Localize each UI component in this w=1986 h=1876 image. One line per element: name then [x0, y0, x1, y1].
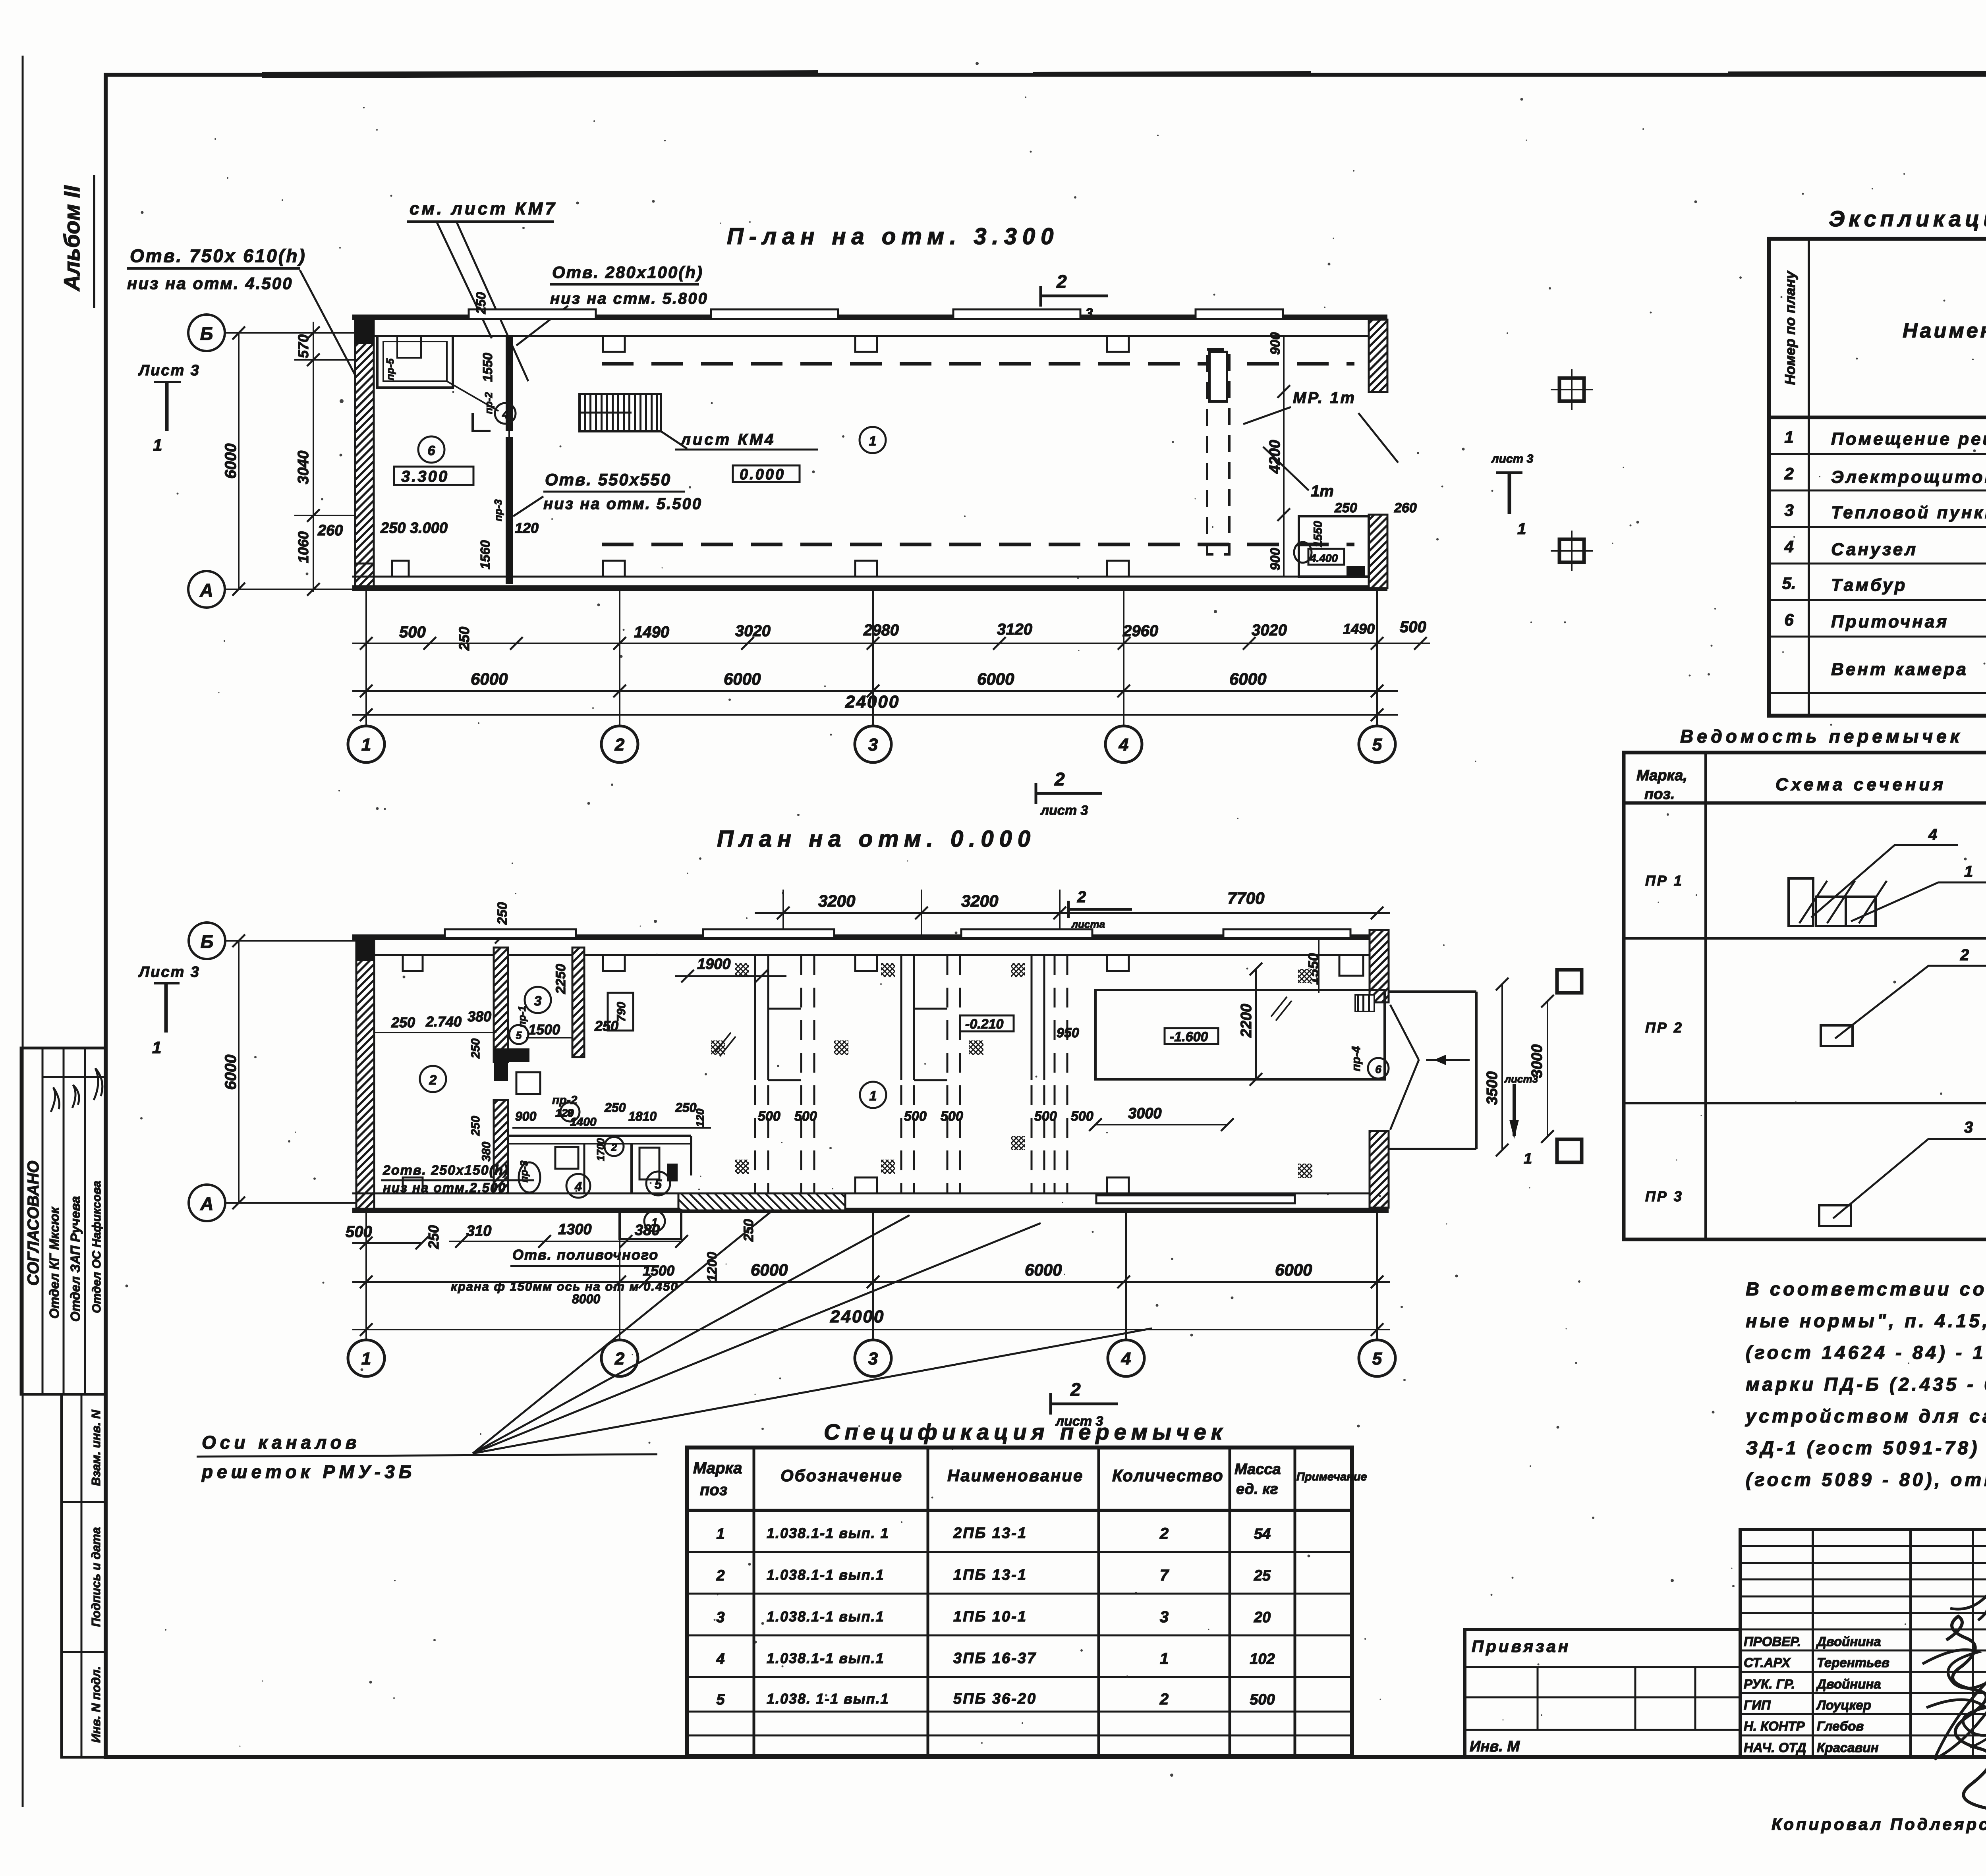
svg-text:2: 2 [429, 1073, 437, 1088]
svg-text:1550: 1550 [480, 353, 495, 382]
svg-text:2: 2 [1784, 464, 1793, 483]
svg-text:низ на отм. 5.500: низ на отм. 5.500 [543, 495, 702, 513]
svg-text:пр-2: пр-2 [552, 1094, 578, 1107]
svg-text:1.038.1-1 вып.1: 1.038.1-1 вып.1 [767, 1608, 885, 1625]
svg-text:120: 120 [515, 520, 539, 536]
svg-text:3: 3 [868, 1349, 878, 1368]
svg-text:Лоуцкер: Лоуцкер [1816, 1698, 1871, 1712]
svg-text:2: 2 [1159, 1525, 1169, 1542]
svg-text:1.038. 1-1 вып.1: 1.038. 1-1 вып.1 [767, 1691, 889, 1707]
svg-text:3: 3 [1160, 1608, 1169, 1626]
svg-text:П-лан на отм. 3.300: П-лан на отм. 3.300 [727, 224, 1059, 249]
svg-text:4: 4 [502, 408, 508, 421]
svg-text:1500: 1500 [643, 1262, 674, 1279]
svg-text:0.000: 0.000 [740, 466, 785, 483]
svg-text:1: 1 [1784, 428, 1793, 446]
svg-text:500: 500 [1400, 618, 1426, 636]
svg-text:3500: 3500 [1484, 1071, 1501, 1105]
svg-text:900: 900 [1268, 548, 1283, 571]
svg-text:РУК. ГР.: РУК. ГР. [1744, 1677, 1795, 1691]
svg-text:6: 6 [1784, 610, 1794, 629]
svg-text:ед. кг: ед. кг [1236, 1481, 1278, 1498]
svg-text:8000: 8000 [572, 1292, 600, 1306]
svg-text:Отдел ОС Нафиксова: Отдел ОС Нафиксова [90, 1181, 103, 1313]
svg-text:1ПБ 13-1: 1ПБ 13-1 [953, 1567, 1027, 1583]
svg-text:Количество: Количество [1112, 1466, 1224, 1485]
svg-text:-1.600: -1.600 [1170, 1029, 1208, 1044]
svg-text:пр-3: пр-3 [518, 1160, 530, 1182]
svg-text:4: 4 [1121, 1349, 1131, 1368]
svg-text:5: 5 [1372, 735, 1382, 755]
svg-text:900: 900 [1268, 332, 1283, 355]
svg-text:5.: 5. [1782, 574, 1796, 593]
svg-text:Оси каналов: Оси каналов [202, 1432, 361, 1453]
svg-text:1400: 1400 [570, 1116, 597, 1129]
svg-text:2: 2 [1056, 271, 1067, 292]
svg-text:250: 250 [495, 902, 510, 925]
svg-text:Копировал Подлеярская: Копировал Подлеярская [1772, 1815, 1986, 1834]
svg-text:лист КМ4: лист КМ4 [680, 431, 775, 448]
svg-text:1: 1 [1160, 1650, 1169, 1668]
svg-text:250: 250 [456, 627, 472, 651]
svg-text:2отв. 250х150(h): 2отв. 250х150(h) [383, 1163, 509, 1178]
svg-text:1: 1 [869, 1089, 877, 1104]
svg-text:Красавин: Красавин [1817, 1740, 1879, 1755]
svg-text:НАЧ. ОТД: НАЧ. ОТД [1744, 1740, 1806, 1755]
svg-text:(гост 14624 - 84) - 1шт; мар: (гост 14624 - 84) - 1шт; марки ДО 24-10 … [1746, 1342, 1986, 1363]
svg-text:1.038.1-1 вып. 1: 1.038.1-1 вып. 1 [767, 1525, 889, 1541]
svg-text:Наименование: Наименование [947, 1466, 1084, 1485]
svg-text:Номер по плану: Номер по плану [1782, 270, 1798, 385]
svg-text:5: 5 [655, 1177, 662, 1191]
svg-text:Н. КОНТР: Н. КОНТР [1744, 1719, 1805, 1733]
svg-text:Отв. поливочного: Отв. поливочного [512, 1247, 659, 1263]
svg-text:500: 500 [904, 1109, 927, 1124]
svg-text:24000: 24000 [830, 1307, 885, 1326]
svg-text:2ПБ 13-1: 2ПБ 13-1 [953, 1525, 1027, 1542]
svg-text:6: 6 [1375, 1063, 1381, 1075]
svg-text:2960: 2960 [1122, 622, 1158, 640]
svg-text:3200: 3200 [961, 892, 998, 910]
svg-text:пр-3: пр-3 [492, 499, 504, 521]
svg-text:250 3.000: 250 3.000 [380, 520, 448, 537]
svg-text:1490: 1490 [1343, 621, 1375, 637]
svg-text:низ на стм. 5.800: низ на стм. 5.800 [550, 290, 708, 307]
svg-text:марки ПД-Б (2.435 - 6 вып.: марки ПД-Б (2.435 - 6 вып.1) - 1шт обору… [1746, 1374, 1986, 1395]
svg-text:2.740: 2.740 [425, 1013, 462, 1030]
svg-text:ГИП: ГИП [1744, 1698, 1771, 1712]
svg-text:1550: 1550 [1312, 521, 1325, 547]
svg-text:5ПБ 36-20: 5ПБ 36-20 [953, 1691, 1037, 1707]
svg-text:1т: 1т [1311, 483, 1334, 500]
svg-text:пр-1: пр-1 [516, 1006, 528, 1028]
svg-text:Б: Б [201, 931, 214, 952]
svg-text:1ПБ 10-1: 1ПБ 10-1 [953, 1608, 1027, 1625]
svg-text:250: 250 [604, 1100, 626, 1115]
svg-text:Глебов: Глебов [1817, 1719, 1864, 1733]
svg-text:6000: 6000 [1025, 1260, 1062, 1279]
svg-text:2200: 2200 [1238, 1004, 1255, 1038]
svg-text:пр-5: пр-5 [384, 358, 396, 380]
svg-text:пр-2: пр-2 [483, 392, 495, 414]
svg-text:ные нормы", п. 4.15, двери: ные нормы", п. 4.15, двери марки ДНГ 24-… [1746, 1310, 1986, 1331]
svg-text:120: 120 [694, 1108, 706, 1127]
svg-text:1300: 1300 [558, 1221, 592, 1238]
svg-text:1: 1 [361, 1349, 371, 1368]
svg-text:6: 6 [428, 443, 436, 458]
svg-text:3000: 3000 [1128, 1105, 1162, 1122]
svg-text:380: 380 [480, 1142, 493, 1162]
svg-text:1560: 1560 [478, 540, 493, 569]
svg-text:Тепловой пункт: Тепловой пункт [1831, 503, 1986, 522]
svg-text:3ПБ 16-37: 3ПБ 16-37 [953, 1650, 1037, 1667]
svg-text:Экспликация помещений: Экспликация помещений [1829, 206, 1986, 231]
svg-text:4: 4 [716, 1651, 724, 1668]
svg-text:4: 4 [1784, 537, 1793, 556]
svg-text:Электрощитовая: Электрощитовая [1831, 467, 1986, 487]
svg-text:лист3: лист3 [1504, 1073, 1538, 1085]
svg-text:1: 1 [869, 434, 877, 449]
svg-text:2250: 2250 [553, 964, 568, 994]
svg-text:ПРОВЕР.: ПРОВЕР. [1744, 1634, 1801, 1649]
svg-text:1500: 1500 [528, 1021, 560, 1038]
svg-text:380: 380 [468, 1008, 491, 1025]
svg-text:СОГЛАСОВАНО: СОГЛАСОВАНО [25, 1161, 42, 1286]
svg-text:500: 500 [346, 1223, 372, 1241]
svg-text:1.038.1-1 вып.1: 1.038.1-1 вып.1 [767, 1567, 885, 1583]
svg-text:СТ.АРХ: СТ.АРХ [1744, 1655, 1791, 1670]
svg-text:3: 3 [534, 994, 542, 1009]
svg-text:решеток РМУ-3Б: решеток РМУ-3Б [201, 1461, 415, 1482]
svg-text:4: 4 [574, 1179, 582, 1194]
svg-text:Схема сечения: Схема сечения [1775, 775, 1946, 794]
svg-text:1900: 1900 [697, 956, 731, 973]
svg-text:4200: 4200 [1267, 440, 1283, 474]
svg-text:5: 5 [716, 1691, 725, 1708]
svg-text:Санузел: Санузел [1831, 540, 1918, 559]
svg-text:2: 2 [1070, 1379, 1081, 1400]
svg-text:1: 1 [1964, 863, 1973, 880]
svg-text:Терентьев: Терентьев [1817, 1655, 1889, 1670]
svg-text:250: 250 [469, 1038, 482, 1059]
svg-text:пр-4: пр-4 [1350, 1046, 1363, 1071]
svg-text:1.038.1-1 вып.1: 1.038.1-1 вып.1 [767, 1650, 885, 1666]
svg-text:500: 500 [1034, 1109, 1057, 1124]
svg-text:4: 4 [1119, 735, 1128, 755]
svg-text:ЗД-1 (гост 5091-78) и замком: ЗД-1 (гост 5091-78) и замком ЗН1Л [1746, 1437, 1986, 1458]
svg-text:950: 950 [1057, 1025, 1079, 1040]
svg-text:1: 1 [716, 1526, 724, 1542]
svg-text:низ на отм. 4.500: низ на отм. 4.500 [127, 274, 293, 293]
svg-text:2980: 2980 [863, 621, 899, 639]
svg-text:лист 3: лист 3 [1491, 452, 1534, 465]
svg-text:3: 3 [716, 1609, 724, 1626]
svg-text:2: 2 [611, 1141, 617, 1153]
svg-text:260: 260 [1394, 500, 1417, 515]
svg-text:25: 25 [1254, 1567, 1271, 1584]
svg-text:Лист 3: Лист 3 [138, 362, 200, 379]
svg-text:2: 2 [1159, 1691, 1169, 1708]
svg-text:250: 250 [469, 1116, 482, 1136]
svg-text:Помещение решеток: Помещение решеток [1831, 429, 1986, 449]
svg-text:План на отм. 0.000: План на отм. 0.000 [717, 826, 1036, 852]
svg-text:-0.210: -0.210 [965, 1017, 1003, 1032]
svg-text:3.300: 3.300 [401, 468, 449, 485]
svg-text:Подпись и дата: Подпись и дата [89, 1527, 103, 1627]
svg-text:6000: 6000 [222, 444, 240, 479]
svg-text:3: 3 [868, 735, 878, 755]
svg-text:Масса: Масса [1234, 1461, 1281, 1478]
svg-text:3: 3 [1784, 501, 1793, 519]
svg-text:500: 500 [794, 1109, 817, 1124]
svg-text:250: 250 [473, 292, 488, 315]
svg-text:Инв. N подл.: Инв. N подл. [89, 1666, 103, 1743]
svg-text:6000: 6000 [724, 670, 761, 688]
svg-text:250: 250 [1334, 500, 1357, 515]
svg-text:54: 54 [1254, 1526, 1271, 1542]
svg-text:Отв. 550х550: Отв. 550х550 [545, 470, 671, 489]
svg-text:250: 250 [391, 1014, 415, 1031]
svg-text:Инв. М: Инв. М [1470, 1738, 1520, 1755]
svg-text:Тамбур: Тамбур [1831, 575, 1907, 595]
svg-text:500: 500 [1250, 1691, 1275, 1708]
svg-text:1810: 1810 [628, 1109, 657, 1123]
svg-text:А: А [199, 580, 213, 600]
svg-text:7700: 7700 [1227, 889, 1264, 907]
svg-text:6000: 6000 [751, 1260, 788, 1279]
svg-text:1: 1 [361, 735, 371, 755]
svg-text:310: 310 [466, 1223, 491, 1239]
svg-text:поз: поз [700, 1481, 727, 1499]
svg-text:ПР 3: ПР 3 [1645, 1188, 1683, 1204]
svg-text:6000: 6000 [977, 670, 1014, 688]
svg-text:Ведомость перемычек: Ведомость перемычек [1680, 726, 1963, 747]
svg-text:поз.: поз. [1644, 786, 1675, 803]
svg-text:3200: 3200 [818, 892, 855, 910]
svg-text:Отв. 280х100(h): Отв. 280х100(h) [552, 263, 703, 282]
svg-text:6000: 6000 [471, 670, 508, 688]
svg-text:1: 1 [1517, 520, 1526, 538]
svg-text:см. лист КМ7: см. лист КМ7 [410, 199, 557, 218]
svg-text:20: 20 [1254, 1609, 1271, 1626]
svg-text:260: 260 [317, 522, 343, 539]
svg-text:Марка,: Марка, [1636, 767, 1687, 784]
svg-text:Спецификация перемычек: Спецификация перемычек [824, 1419, 1227, 1444]
svg-text:Приточная: Приточная [1831, 612, 1949, 631]
svg-text:900: 900 [515, 1109, 537, 1123]
svg-text:3: 3 [1964, 1119, 1973, 1136]
svg-text:380: 380 [635, 1222, 660, 1239]
svg-text:Б: Б [200, 323, 213, 344]
svg-text:6000: 6000 [1229, 670, 1266, 688]
svg-text:3020: 3020 [1252, 621, 1287, 639]
svg-text:250: 250 [675, 1100, 697, 1115]
svg-text:МР. 1т: МР. 1т [1293, 389, 1356, 407]
svg-text:3120: 3120 [997, 621, 1032, 638]
svg-text:2: 2 [1960, 946, 1969, 964]
svg-text:Взам. инв. N: Взам. инв. N [89, 1410, 103, 1486]
svg-text:Двойнина: Двойнина [1816, 1634, 1881, 1649]
svg-text:Обозначение: Обозначение [780, 1466, 903, 1485]
svg-text:7: 7 [1160, 1567, 1169, 1584]
svg-text:2: 2 [716, 1567, 724, 1584]
svg-text:500: 500 [758, 1109, 780, 1124]
svg-text:2: 2 [614, 1349, 625, 1368]
svg-text:1: 1 [153, 436, 162, 454]
svg-text:Привязан: Привязан [1472, 1637, 1571, 1656]
svg-text:ПР 1: ПР 1 [1645, 872, 1683, 889]
svg-text:4.400: 4.400 [1310, 552, 1338, 564]
svg-text:устройством для самозакрыв: устройством для самозакрывания закрывате… [1745, 1405, 1986, 1426]
svg-text:500: 500 [941, 1109, 963, 1124]
svg-text:102: 102 [1250, 1651, 1275, 1668]
svg-text:Отдел ЗАП Ручева: Отдел ЗАП Ручева [68, 1196, 83, 1322]
svg-text:лист 3: лист 3 [1040, 803, 1088, 818]
svg-text:(гост 5089 - 80), открывающи: (гост 5089 - 80), открывающимся изнутри … [1746, 1469, 1986, 1490]
svg-text:Наименование: Наименование [1903, 319, 1986, 342]
svg-text:2: 2 [1054, 769, 1065, 789]
svg-text:Примечание: Примечание [1296, 1471, 1367, 1483]
svg-text:500: 500 [399, 623, 426, 641]
svg-text:1700: 1700 [595, 1138, 607, 1161]
svg-text:790: 790 [615, 1002, 628, 1022]
svg-text:1490: 1490 [634, 623, 669, 641]
svg-text:6000: 6000 [1275, 1260, 1312, 1279]
svg-text:1: 1 [152, 1038, 161, 1057]
svg-text:4: 4 [1928, 826, 1937, 843]
svg-text:2: 2 [614, 735, 625, 755]
svg-text:Двойнина: Двойнина [1816, 1677, 1881, 1691]
svg-text:500: 500 [1071, 1109, 1093, 1124]
svg-text:ПР 2: ПР 2 [1645, 1019, 1683, 1036]
svg-text:Отдел КГ Мксюк: Отдел КГ Мксюк [47, 1206, 62, 1318]
svg-text:5: 5 [1372, 1349, 1382, 1368]
svg-text:6000: 6000 [222, 1055, 240, 1090]
svg-text:Альбом II: Альбом II [59, 185, 84, 292]
svg-text:1: 1 [1524, 1150, 1532, 1167]
svg-text:1060: 1060 [295, 531, 311, 563]
svg-text:Лист 3: Лист 3 [138, 964, 200, 980]
svg-text:2: 2 [1077, 888, 1086, 906]
svg-text:Отв. 750х 610(h): Отв. 750х 610(h) [130, 245, 307, 266]
svg-text:5: 5 [516, 1029, 522, 1041]
svg-text:Марка: Марка [693, 1459, 742, 1477]
svg-text:Вент камера: Вент камера [1831, 660, 1968, 679]
svg-text:низ на отм.2.500: низ на отм.2.500 [383, 1180, 506, 1195]
svg-text:В соответствии со СНиП 2.: В соответствии со СНиП 2.01.02-85 „ Прот… [1746, 1278, 1986, 1299]
svg-text:3040: 3040 [295, 451, 312, 484]
svg-text:А: А [200, 1193, 213, 1214]
